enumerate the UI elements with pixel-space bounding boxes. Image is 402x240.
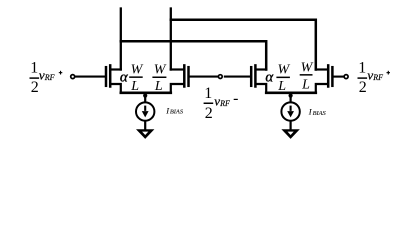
svg-text:BIAS: BIAS xyxy=(170,109,184,116)
svg-text:L: L xyxy=(277,79,286,94)
svg-text:W: W xyxy=(154,62,167,77)
svg-text:2: 2 xyxy=(359,79,367,96)
svg-text:RF: RF xyxy=(44,73,55,82)
svg-text:RF: RF xyxy=(219,99,230,108)
svg-text:BIAS: BIAS xyxy=(313,110,327,117)
svg-text:RF: RF xyxy=(372,73,383,82)
svg-text:2: 2 xyxy=(31,79,39,96)
svg-text:α: α xyxy=(265,69,274,85)
svg-text:1: 1 xyxy=(30,60,38,77)
svg-text:W: W xyxy=(131,62,144,77)
svg-text:W: W xyxy=(301,60,314,75)
svg-text:2: 2 xyxy=(205,105,213,122)
svg-text:L: L xyxy=(130,79,139,94)
svg-text:L: L xyxy=(301,77,310,92)
svg-text:α: α xyxy=(120,69,129,85)
svg-text:L: L xyxy=(154,79,163,94)
svg-text:1: 1 xyxy=(358,60,366,77)
svg-text:W: W xyxy=(277,62,290,77)
svg-text:1: 1 xyxy=(204,85,212,102)
